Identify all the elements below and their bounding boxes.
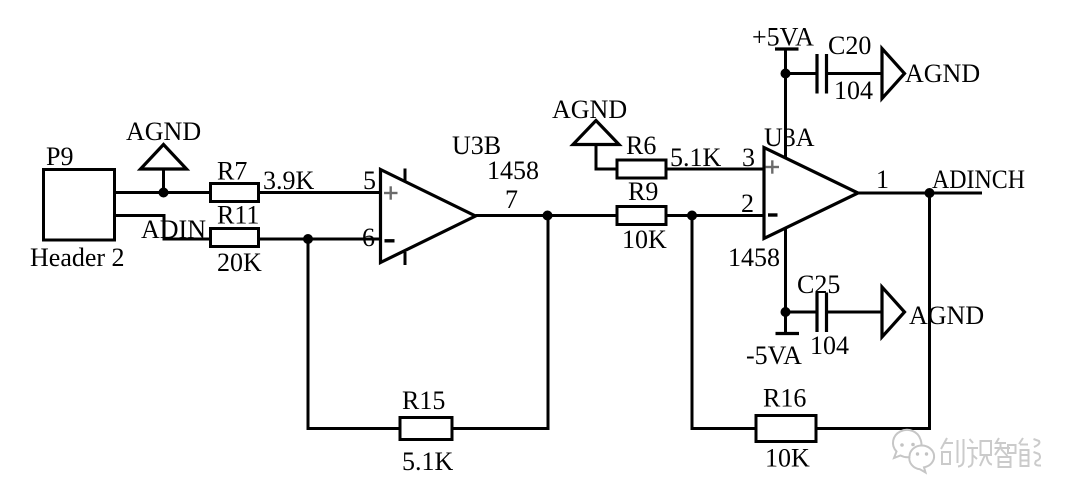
svg-text:104: 104 — [834, 76, 873, 105]
svg-text:5.1K: 5.1K — [670, 143, 722, 172]
svg-text:P9: P9 — [46, 142, 73, 171]
svg-text:104: 104 — [810, 331, 849, 360]
svg-text:AGND: AGND — [126, 117, 201, 146]
svg-text:20K: 20K — [217, 248, 262, 277]
svg-text:C25: C25 — [797, 270, 840, 299]
svg-text:C20: C20 — [828, 31, 871, 60]
svg-text:AGND: AGND — [909, 301, 984, 330]
svg-text:5: 5 — [363, 166, 376, 195]
svg-text:1458: 1458 — [487, 156, 539, 185]
svg-text:R6: R6 — [626, 131, 656, 160]
svg-text:AGND: AGND — [552, 95, 627, 124]
svg-text:ADIN: ADIN — [141, 215, 206, 244]
svg-text:1: 1 — [876, 165, 889, 194]
svg-text:3: 3 — [742, 143, 755, 172]
svg-text:R9: R9 — [628, 177, 658, 206]
svg-text:10K: 10K — [622, 225, 667, 254]
svg-text:R16: R16 — [763, 384, 806, 413]
svg-text:ADINCH: ADINCH — [932, 165, 1025, 194]
svg-text:-5VA: -5VA — [746, 341, 802, 370]
svg-text:R7: R7 — [217, 157, 247, 186]
svg-text:7: 7 — [505, 185, 518, 214]
svg-text:AGND: AGND — [905, 59, 980, 88]
svg-text:+5VA: +5VA — [752, 23, 814, 52]
svg-text:R15: R15 — [402, 386, 445, 415]
svg-text:U3A: U3A — [764, 123, 815, 152]
svg-text:5.1K: 5.1K — [402, 447, 454, 476]
svg-text:3.9K: 3.9K — [263, 166, 315, 195]
svg-text:2: 2 — [741, 189, 754, 218]
svg-text:R11: R11 — [217, 201, 259, 230]
svg-text:6: 6 — [362, 223, 375, 252]
svg-text:1458: 1458 — [728, 243, 780, 272]
svg-text:10K: 10K — [765, 444, 810, 473]
svg-text:Header 2: Header 2 — [30, 243, 125, 272]
